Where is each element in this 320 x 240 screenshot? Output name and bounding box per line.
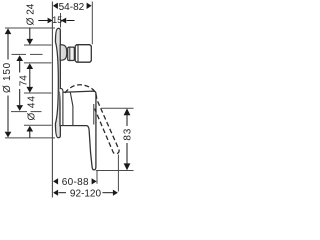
svg-text:60-88: 60-88 [62,177,89,188]
svg-text:Ø 24: Ø 24 [26,3,37,25]
svg-text:Ø 44: Ø 44 [26,95,37,120]
svg-text:Ø 150: Ø 150 [2,62,13,93]
svg-text:54-82: 54-82 [59,2,85,13]
svg-text:83: 83 [123,128,134,141]
svg-text:15: 15 [52,15,62,25]
svg-text:74: 74 [18,75,29,87]
svg-text:92-120: 92-120 [70,188,102,199]
